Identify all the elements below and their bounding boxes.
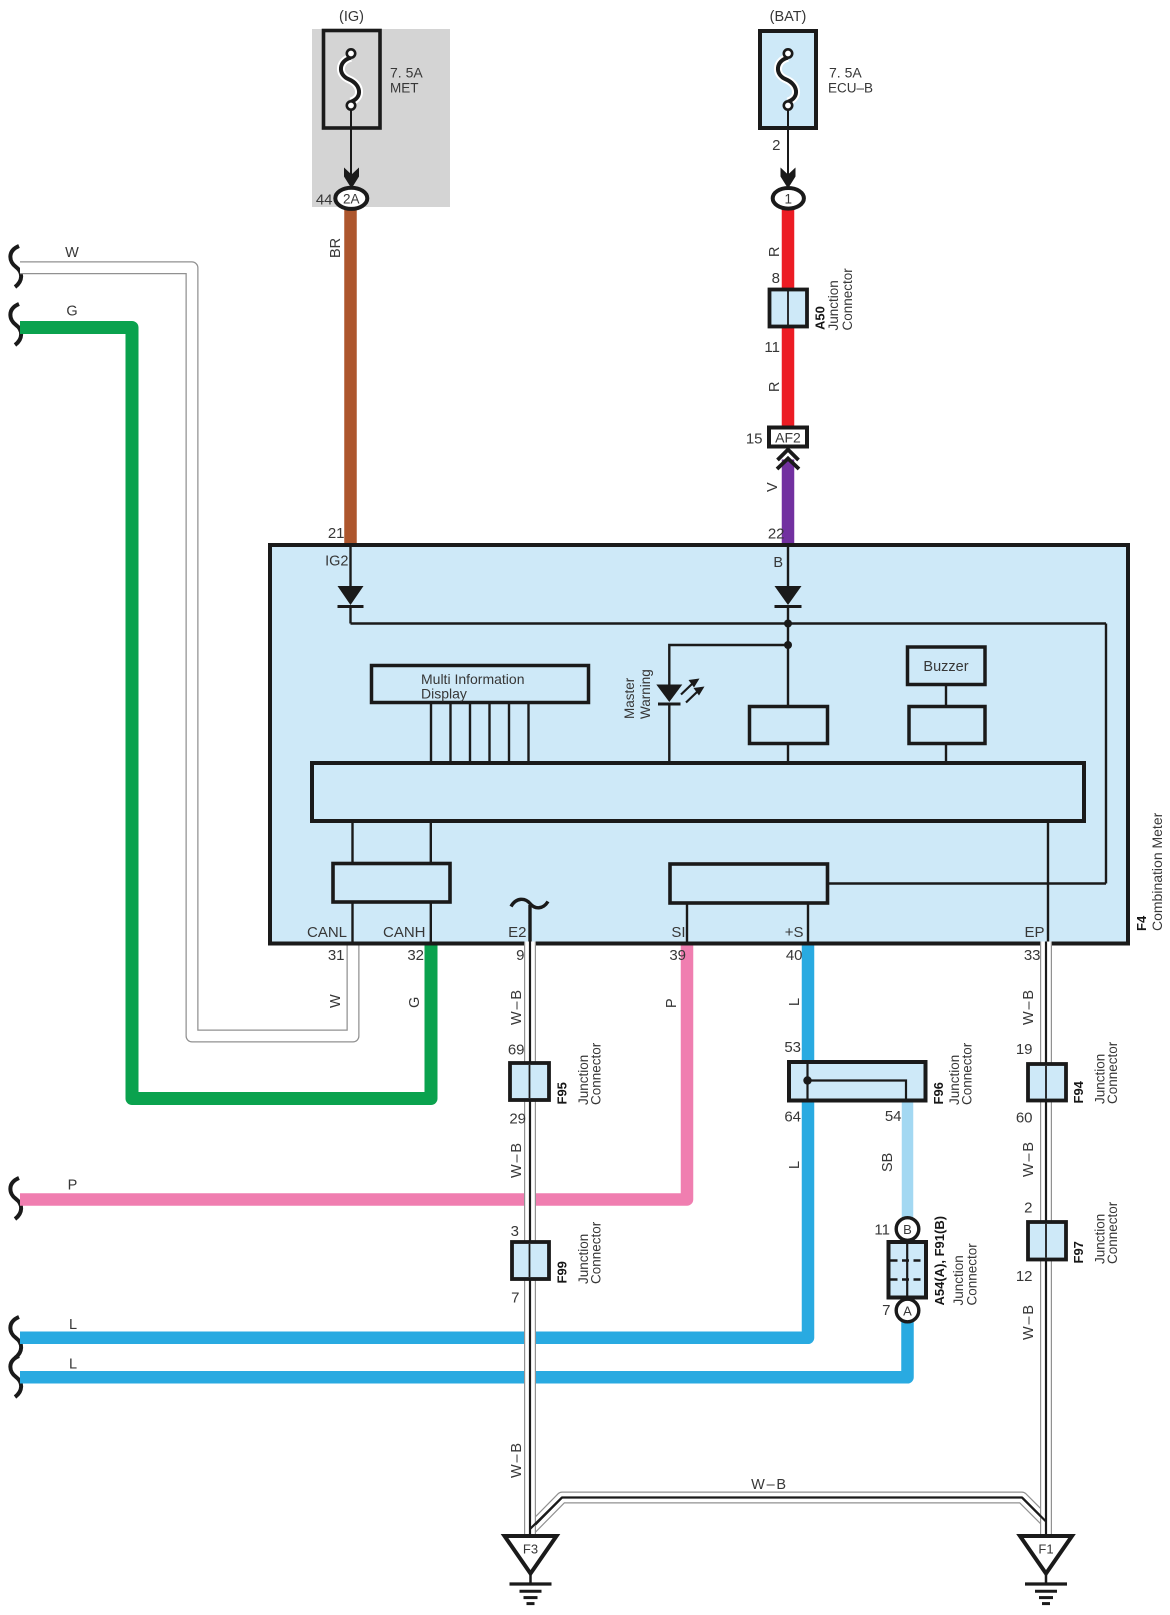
- svg-text:W–B: W–B: [1021, 988, 1037, 1025]
- svg-text:1: 1: [785, 191, 793, 206]
- junction connector F99: [512, 1242, 549, 1279]
- svg-text:SB: SB: [880, 1153, 896, 1172]
- wire L (blue) to +S: [20, 942, 808, 1338]
- fuse MET element: [341, 58, 359, 102]
- connector circle B: [896, 1218, 919, 1241]
- fuse block background (IG): [312, 29, 450, 207]
- svg-text:CANL: CANL: [307, 924, 347, 941]
- shield chevrons: [777, 450, 799, 470]
- svg-text:3: 3: [511, 1223, 519, 1240]
- combination meter F4 box: [270, 545, 1128, 944]
- fuse ECU-B element: [778, 58, 796, 102]
- svg-text:Connector: Connector: [965, 1243, 980, 1306]
- wire L (blue) to connector A: [20, 1321, 908, 1377]
- svg-text:2: 2: [772, 137, 780, 154]
- svg-text:F96: F96: [931, 1082, 946, 1104]
- buzzer box: [908, 647, 986, 685]
- wire W (white) to CANL: [20, 268, 353, 1036]
- break symbol P: [10, 1178, 21, 1219]
- svg-text:E2: E2: [508, 924, 526, 941]
- svg-text:21: 21: [328, 525, 345, 542]
- wire B internal: [787, 547, 789, 586]
- LED D3: [656, 685, 682, 703]
- connector oval 1: [773, 188, 804, 209]
- wire V (violet): [782, 460, 795, 548]
- E2 tilde: [511, 899, 548, 907]
- svg-text:F97: F97: [1071, 1241, 1086, 1263]
- svg-text:EP: EP: [1024, 924, 1044, 941]
- arrow into connector 1: [781, 168, 796, 189]
- svg-text:SI: SI: [671, 924, 685, 941]
- svg-text:11: 11: [764, 339, 780, 356]
- fuse ECU-B 7.5A box: [760, 31, 816, 128]
- svg-text:Buzzer: Buzzer: [923, 659, 968, 675]
- svg-text:Connector: Connector: [840, 268, 855, 331]
- wire bus to EP: [1047, 821, 1049, 942]
- svg-text:53: 53: [784, 1039, 801, 1056]
- main bus block: [312, 763, 1084, 821]
- wire W-B (E2 to ground F3): [524, 942, 536, 1537]
- svg-text:W–B: W–B: [751, 1477, 788, 1493]
- svg-text:7. 5A: 7. 5A: [390, 65, 423, 81]
- break symbol L2: [10, 1356, 21, 1397]
- svg-text:G: G: [407, 997, 423, 1008]
- svg-text:2A: 2A: [343, 191, 360, 206]
- svg-text:+S: +S: [785, 924, 804, 941]
- diode D1 (IG2): [338, 586, 364, 605]
- CAN block: [333, 864, 450, 903]
- svg-text:W–B: W–B: [1021, 1303, 1037, 1340]
- svg-text:W–B: W–B: [509, 988, 525, 1025]
- svg-text:(BAT): (BAT): [770, 9, 807, 25]
- diode D2 (B): [775, 586, 802, 605]
- wire internal right vertical: [1105, 624, 1107, 884]
- svg-text:7: 7: [882, 1302, 890, 1319]
- svg-text:P: P: [68, 1178, 78, 1194]
- wire W-B bottom link: [530, 1498, 1046, 1531]
- svg-text:Connector: Connector: [960, 1042, 975, 1105]
- svg-text:69: 69: [508, 1042, 525, 1059]
- svg-text:Warning: Warning: [638, 669, 653, 719]
- wire to LED: [669, 645, 788, 685]
- wire G (green) to CANH: [20, 328, 431, 1099]
- svg-text:8: 8: [772, 270, 780, 287]
- svg-text:7. 5A: 7. 5A: [829, 65, 862, 81]
- svg-text:W: W: [328, 994, 344, 1008]
- svg-text:MET: MET: [390, 81, 419, 96]
- svg-text:31: 31: [328, 947, 345, 964]
- svg-text:F99: F99: [555, 1261, 570, 1283]
- svg-text:R: R: [767, 382, 783, 392]
- svg-text:ECU–B: ECU–B: [828, 81, 873, 96]
- svg-text:L: L: [69, 1357, 77, 1373]
- svg-text:54: 54: [885, 1108, 902, 1125]
- svg-text:2: 2: [1024, 1200, 1032, 1217]
- junction connector F97: [1028, 1222, 1066, 1260]
- svg-text:W–B: W–B: [509, 1441, 525, 1478]
- svg-text:A: A: [903, 1303, 912, 1318]
- svg-text:40: 40: [786, 947, 803, 964]
- svg-text:V: V: [765, 482, 781, 492]
- wire BR (brown): [344, 207, 357, 547]
- svg-text:W–B: W–B: [509, 1141, 525, 1178]
- svg-text:Connector: Connector: [589, 1221, 604, 1284]
- wire SI block right link: [828, 882, 1107, 884]
- connector circle A: [896, 1299, 919, 1322]
- svg-text:B: B: [773, 555, 783, 571]
- wire P (pink) to SI: [20, 942, 687, 1200]
- junction connector F96: [789, 1062, 926, 1101]
- svg-text:64: 64: [784, 1109, 801, 1126]
- ground F3: [505, 1536, 557, 1574]
- fuse MET 7.5A box: [324, 31, 381, 129]
- ground F1: [1020, 1536, 1072, 1574]
- svg-text:15: 15: [746, 431, 763, 448]
- LED arrows: [681, 684, 692, 695]
- junction connector A54(A) F91(B): [889, 1242, 927, 1298]
- svg-text:Combination Meter: Combination Meter: [1149, 812, 1165, 931]
- svg-text:F1: F1: [1038, 1542, 1053, 1557]
- svg-text:Connector: Connector: [1105, 1041, 1120, 1104]
- svg-text:39: 39: [669, 947, 686, 964]
- svg-text:L: L: [69, 1317, 77, 1333]
- wires bus to CAN block: [351, 821, 353, 864]
- junction connector F94: [1028, 1064, 1066, 1101]
- internal block U1: [750, 707, 828, 744]
- svg-text:9: 9: [516, 947, 524, 964]
- junction node 1: [784, 620, 792, 628]
- wire SB (light blue): [902, 1100, 914, 1222]
- svg-text:F94: F94: [1071, 1080, 1086, 1103]
- svg-text:W–B: W–B: [1021, 1140, 1037, 1177]
- svg-text:F4: F4: [1134, 915, 1149, 931]
- break symbol G: [10, 304, 21, 345]
- wires CAN block to pins: [351, 902, 353, 942]
- svg-text:60: 60: [1016, 1110, 1033, 1127]
- wire buzzer link: [945, 685, 947, 707]
- svg-text:Connector: Connector: [1105, 1201, 1120, 1264]
- junction connector F95: [510, 1063, 549, 1100]
- connector oval 2A: [335, 188, 367, 209]
- svg-text:R: R: [767, 247, 783, 257]
- svg-text:22: 22: [768, 526, 785, 543]
- display bus wires: [430, 704, 432, 763]
- svg-text:P: P: [664, 998, 680, 1008]
- wire internal bus top: [351, 622, 1107, 624]
- break symbol W: [10, 246, 21, 287]
- svg-text:F95: F95: [555, 1082, 570, 1104]
- internal block U2: [909, 707, 985, 744]
- svg-text:Connector: Connector: [589, 1042, 604, 1105]
- arrow into connector 2A: [344, 168, 359, 189]
- svg-text:11: 11: [874, 1222, 890, 1239]
- svg-text:Display: Display: [421, 686, 467, 702]
- multi information display box: [372, 666, 589, 703]
- svg-text:A54(A), F91(B): A54(A), F91(B): [932, 1216, 947, 1306]
- svg-text:B: B: [903, 1222, 912, 1237]
- svg-text:7: 7: [511, 1290, 519, 1307]
- svg-text:44: 44: [316, 192, 333, 209]
- svg-text:(IG): (IG): [339, 9, 364, 25]
- svg-text:Master: Master: [622, 677, 637, 719]
- svg-text:IG2: IG2: [325, 554, 348, 570]
- break symbol L1: [10, 1317, 21, 1358]
- junction node 2: [784, 641, 792, 649]
- svg-text:CANH: CANH: [383, 924, 426, 941]
- wire R (red): [782, 207, 795, 427]
- svg-text:12: 12: [1016, 1268, 1033, 1285]
- svg-text:L: L: [787, 998, 803, 1006]
- svg-text:19: 19: [1016, 1041, 1033, 1058]
- svg-text:W: W: [65, 245, 79, 261]
- wires SI block to pins: [686, 903, 688, 942]
- svg-text:Junction: Junction: [826, 280, 841, 330]
- svg-text:G: G: [66, 304, 77, 320]
- wire W-B (EP to ground F1): [1040, 942, 1052, 1537]
- wire W-B link merge lines: [530, 1498, 1046, 1530]
- svg-text:29: 29: [509, 1111, 526, 1128]
- svg-text:33: 33: [1024, 947, 1041, 964]
- wire IG2 internal: [349, 547, 351, 586]
- wire fuse MET output: [350, 110, 352, 176]
- svg-text:AF2: AF2: [775, 430, 801, 446]
- svg-text:L: L: [787, 1161, 803, 1169]
- connector AF2: [769, 428, 807, 447]
- junction connector A50: [770, 290, 808, 327]
- svg-text:32: 32: [407, 947, 424, 964]
- svg-text:F3: F3: [523, 1542, 538, 1557]
- wire fuse ECU-B output: [787, 110, 789, 176]
- svg-text:BR: BR: [328, 238, 344, 258]
- SI block: [670, 864, 828, 903]
